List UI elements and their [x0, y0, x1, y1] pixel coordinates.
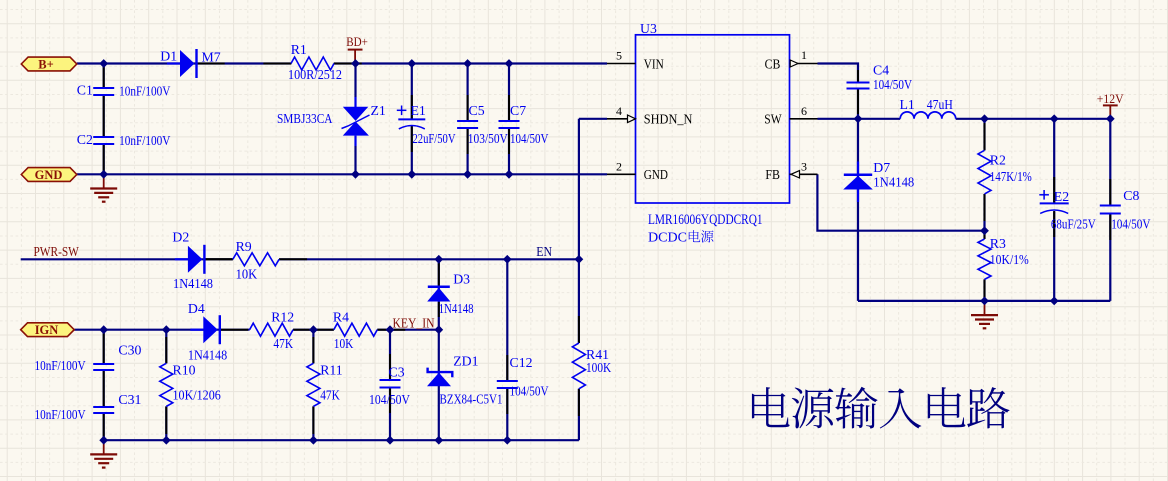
svg-text:D4: D4: [188, 301, 205, 316]
svg-text:1N4148: 1N4148: [173, 276, 213, 291]
wire bottom rail right: [858, 300, 1110, 302]
svg-text:10nF/100V: 10nF/100V: [35, 358, 86, 373]
svg-text:C7: C7: [510, 103, 526, 118]
svg-text:R9: R9: [236, 239, 252, 254]
wire E2 column: [1053, 119, 1055, 204]
wire IGN row: [74, 329, 249, 331]
wire C5 column: [467, 64, 469, 122]
wire FB net: [817, 174, 984, 230]
capacitor C12: [497, 380, 518, 382]
svg-text:CB: CB: [765, 56, 781, 71]
wire R10 column: [165, 330, 167, 364]
svg-text:6: 6: [801, 104, 807, 118]
wire C12 column: [506, 259, 508, 381]
diode D7: [857, 162, 859, 175]
wire C3 column: [389, 330, 391, 380]
diode D4: [190, 329, 203, 331]
svg-text:GND: GND: [35, 168, 63, 182]
capacitor C8: [1100, 205, 1121, 207]
svg-text:22uF/50V: 22uF/50V: [413, 131, 456, 146]
diode D1 M7: [167, 62, 180, 64]
svg-text:10K/1206: 10K/1206: [173, 388, 221, 403]
wire GND rail: [77, 173, 607, 175]
svg-text:C4: C4: [873, 63, 889, 78]
port B+: [21, 57, 77, 71]
svg-text:VIN: VIN: [644, 56, 664, 71]
wire bottom rail left: [104, 439, 579, 441]
capacitor E2: [1040, 202, 1069, 204]
wire D3 ZD1 column: [438, 259, 440, 440]
svg-text:1N4148: 1N4148: [188, 348, 227, 363]
component pins (black segments): [103, 66, 105, 88]
wire C8 column: [1109, 119, 1111, 206]
wire SW row: [818, 118, 901, 120]
resistor R41: [572, 343, 585, 389]
pin 5 VIN: [607, 63, 636, 65]
wire EN to pin4: [579, 118, 607, 120]
port GND: [21, 168, 77, 182]
svg-text:104/50V: 104/50V: [369, 392, 410, 407]
svg-text:R3: R3: [990, 236, 1006, 251]
wire D7 column: [857, 119, 859, 301]
capacitor C1: [93, 87, 114, 89]
svg-text:C8: C8: [1123, 188, 1139, 203]
wire C4 bottom: [857, 89, 859, 119]
svg-text:103/50V: 103/50V: [468, 131, 508, 146]
svg-text:U3: U3: [640, 21, 657, 36]
svg-text:1: 1: [801, 48, 807, 62]
svg-text:B+: B+: [38, 57, 53, 71]
svg-text:SHDN_N: SHDN_N: [644, 112, 693, 127]
ground symbol bottom left: [103, 440, 105, 454]
pin 3 FB: [790, 173, 818, 175]
svg-text:3: 3: [801, 159, 807, 173]
svg-text:4: 4: [616, 104, 622, 118]
svg-text:2: 2: [616, 159, 622, 173]
svg-text:47K: 47K: [320, 388, 340, 403]
svg-text:1N4148: 1N4148: [873, 175, 914, 190]
resistor R1: [291, 57, 334, 70]
svg-text:100K: 100K: [586, 360, 611, 375]
svg-text:M7: M7: [202, 50, 221, 65]
pin 1 CB: [790, 63, 818, 65]
svg-text:D3: D3: [453, 272, 470, 287]
diode D3: [438, 302, 440, 317]
pin 6 SW: [790, 118, 818, 120]
wire C30 C31 column: [103, 330, 105, 364]
svg-text:C1: C1: [77, 82, 93, 97]
TVS diode Z1: [343, 107, 369, 121]
svg-text:47uH: 47uH: [927, 97, 953, 112]
svg-text:SW: SW: [764, 112, 782, 127]
svg-text:LMR16006YQDDCRQ1: LMR16006YQDDCRQ1: [648, 212, 763, 228]
svg-text:1N4148: 1N4148: [439, 301, 474, 316]
wire PWR-SW row: [21, 258, 233, 260]
zener diode ZD1: [428, 368, 453, 378]
svg-text:+12V: +12V: [1097, 91, 1124, 106]
svg-text:10nF/100V: 10nF/100V: [35, 407, 86, 422]
wire B+ rail top: [77, 62, 291, 64]
svg-text:10nF/100V: 10nF/100V: [119, 133, 170, 148]
svg-text:R1: R1: [291, 42, 307, 57]
svg-text:GND: GND: [644, 167, 668, 182]
svg-text:ZD1: ZD1: [453, 354, 478, 369]
svg-text:C5: C5: [469, 103, 485, 118]
svg-text:FB: FB: [765, 167, 780, 182]
pin 2 GND: [607, 173, 636, 175]
svg-text:100R/2512: 100R/2512: [288, 67, 342, 82]
svg-text:L1: L1: [900, 97, 915, 112]
svg-text:C3: C3: [389, 365, 405, 380]
power port +12V: [1103, 104, 1118, 106]
svg-text:E1: E1: [411, 103, 426, 118]
wire R3 bottom: [983, 279, 985, 301]
svg-text:104/50V: 104/50V: [1111, 217, 1150, 232]
svg-text:104/50V: 104/50V: [873, 77, 912, 92]
capacitor C30: [93, 363, 114, 365]
schematic title 电源输入电路: [752, 387, 1010, 429]
wire CB to C4: [818, 64, 859, 83]
svg-text:5: 5: [616, 49, 622, 63]
svg-text:D1: D1: [160, 49, 177, 64]
svg-text:10nF/100V: 10nF/100V: [119, 83, 170, 98]
svg-text:R10: R10: [173, 363, 196, 378]
port IGN: [21, 323, 74, 337]
resistor R12: [250, 323, 293, 336]
svg-text:D2: D2: [172, 229, 189, 244]
svg-text:R2: R2: [990, 153, 1006, 168]
svg-text:DCDC: DCDC: [648, 230, 687, 245]
resistor R9: [233, 253, 279, 266]
svg-text:E2: E2: [1054, 189, 1069, 204]
svg-text:104/50V: 104/50V: [510, 384, 549, 399]
svg-text:10K: 10K: [334, 336, 354, 351]
op-amp U1 : DCDC converter U3 body: [636, 35, 790, 203]
capacitor C5: [457, 120, 478, 122]
svg-text:10K: 10K: [236, 266, 258, 281]
junction dots: [99, 59, 108, 68]
svg-text:EN: EN: [536, 244, 552, 259]
capacitor E1: [398, 118, 425, 120]
svg-text:C12: C12: [510, 355, 533, 370]
svg-text:Z1: Z1: [371, 103, 386, 118]
svg-text:SMBJ33CA: SMBJ33CA: [277, 111, 333, 126]
resistor R10: [160, 363, 173, 406]
svg-text:PWR-SW: PWR-SW: [34, 244, 79, 259]
wire E1 column: [411, 64, 413, 120]
svg-text:R11: R11: [320, 363, 343, 378]
resistor R2: [978, 150, 991, 194]
wire R11 column: [312, 330, 314, 364]
capacitor C4: [847, 82, 870, 84]
resistor R3: [978, 239, 991, 279]
diode D2: [175, 258, 188, 260]
ground symbol right: [984, 301, 986, 315]
svg-text:47K: 47K: [273, 336, 293, 351]
resistor R4: [334, 323, 377, 336]
svg-text:KEY_IN: KEY_IN: [393, 315, 435, 330]
pin 4 SHDN_N: [607, 118, 636, 120]
svg-text:IGN: IGN: [35, 323, 59, 337]
capacitor C3: [380, 379, 401, 381]
wire C7 column: [508, 64, 510, 122]
wire C1 C2 column: [103, 64, 105, 89]
svg-text:C30: C30: [118, 343, 141, 358]
svg-text:C2: C2: [77, 132, 93, 147]
wire R2 column: [983, 119, 985, 151]
capacitor C7: [499, 120, 520, 122]
resistor R11: [307, 363, 320, 406]
power port BD+: [348, 49, 363, 51]
svg-text:R4: R4: [333, 310, 349, 325]
capacitor C31: [93, 406, 114, 408]
ground symbol left top: [103, 174, 105, 188]
svg-text:D7: D7: [873, 160, 890, 175]
wire EN vertical: [578, 119, 580, 343]
svg-text:C31: C31: [118, 392, 141, 407]
svg-text:BD+: BD+: [346, 34, 368, 49]
inductor L1: [900, 112, 956, 119]
svg-text:R12: R12: [271, 310, 294, 325]
svg-text:147K/1%: 147K/1%: [990, 169, 1032, 184]
svg-text:68uF/25V: 68uF/25V: [1051, 217, 1096, 232]
svg-text:10K/1%: 10K/1%: [990, 252, 1029, 267]
svg-text:BZX84-C5V1: BZX84-C5V1: [440, 392, 503, 407]
svg-text:104/50V: 104/50V: [510, 131, 549, 146]
capacitor C2: [93, 136, 114, 138]
wire Z1 column: [354, 64, 356, 98]
